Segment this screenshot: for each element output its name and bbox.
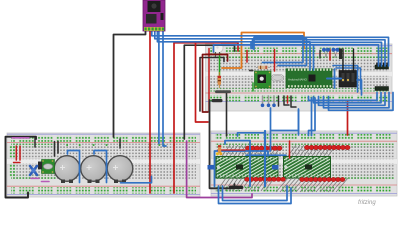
wire blue pico cross — [327, 78, 341, 80]
lead fan wires U3 bottom — [276, 178, 348, 192]
wire blue top bundle T2 — [251, 42, 382, 66]
wire red jumper BB2 b — [19, 146, 21, 160]
wire blue gap U — [271, 108, 299, 131]
wire red wrap left outer — [196, 44, 209, 123]
wire black gap vertical to BB3 — [210, 100, 235, 188]
LED row D1-D8 (above U2) — [245, 146, 282, 150]
IC module U5 (black, right of Pico) — [339, 71, 357, 88]
wire blue BB3 upper U — [225, 141, 250, 187]
wire black L BB1 c — [291, 96, 296, 107]
wire blue bottom wrap B4 — [324, 93, 390, 108]
wire gray jumper BB1 c — [273, 96, 275, 104]
piezo / blue trimmer X2 — [30, 166, 37, 175]
svg-text:fritzing: fritzing — [358, 200, 376, 206]
wire black jumper BB2 — [34, 138, 36, 148]
wire blue bottom wrap B1 — [309, 93, 378, 101]
wire blue BB3 bottom outer — [223, 186, 288, 201]
crystal Y1 (silver oval) — [272, 75, 284, 82]
wire magenta BB2 a — [31, 177, 39, 179]
wire black B left — [200, 58, 224, 112]
wire blue top bundle T4 — [254, 37, 389, 66]
svg-text:ArduinoNANO: ArduinoNANO — [288, 78, 308, 82]
wire red BB1 to BB3 right — [347, 102, 349, 135]
wire red jumper BB1 mid — [274, 50, 276, 72]
wire blue sensor INT — [157, 29, 310, 70]
wire blue top bundle T1 — [214, 45, 379, 66]
lead fan wires U3 top — [288, 145, 336, 156]
wire blue BB3 right vertical — [270, 132, 272, 152]
wire black top to BB1 — [184, 45, 234, 139]
wire blue sensor XCL down — [163, 29, 166, 146]
wire blue sensor SCL — [152, 29, 303, 63]
wire black module pins up a — [342, 49, 344, 72]
coin cell battery BT2 — [81, 156, 107, 183]
jumper dark BB1 small — [249, 70, 254, 72]
wire blue bottom wrap B2 — [314, 93, 382, 103]
wire red BB1 left vertical — [208, 49, 210, 112]
transistor Q1 (black) — [38, 162, 42, 170]
inductor L1 (black bar BB1) — [339, 49, 342, 60]
breadboard BB1 (top right) — [206, 44, 393, 111]
wire black stub BB1 a — [278, 96, 280, 106]
wire magenta BB2 b — [42, 181, 50, 183]
wire blue bottom wrap B5 — [329, 93, 394, 111]
wire red short BB2 — [14, 162, 21, 164]
wire green BB1 — [219, 56, 221, 75]
LED row D9-D16 (below U2) — [245, 177, 286, 181]
breadboard BB3 (bottom right) — [211, 131, 397, 196]
wire red jumper BB3 — [289, 141, 291, 158]
capacitor C1 (blue pair) — [322, 48, 330, 58]
wire red BB2 to BB1 — [174, 43, 238, 193]
wire red sensor VCC — [149, 29, 151, 193]
wire purple BB2 to BB3 — [187, 141, 252, 198]
wire blue pico vertical — [334, 69, 336, 88]
wire black L BB1 b — [284, 96, 289, 105]
wire blue pico vertical 4 — [313, 45, 315, 70]
wire black sensor GND — [114, 29, 146, 137]
black bar BB3 — [229, 186, 243, 189]
coin cell battery BT3 — [107, 156, 133, 183]
wire blue BB3 top short — [238, 133, 265, 136]
wire blue module left b — [336, 68, 361, 89]
wire black jumper BB1 caps — [319, 51, 321, 59]
wire black module pins up b — [353, 49, 355, 72]
wire blue sensor SDA — [155, 29, 307, 66]
wire red stub BB1 — [287, 96, 289, 103]
jumper black BB1 rail — [212, 99, 223, 102]
wire blue BB3 rect around U2 — [215, 151, 269, 187]
wire black BB1 to BB3 — [226, 92, 228, 136]
wire blue BB1 to BB3 pair b — [309, 98, 316, 136]
capacitor C2 (blue pair) — [332, 48, 340, 58]
LED yellow pair BB3 left — [216, 152, 219, 155]
wire gray jumper BB1 b — [268, 96, 270, 104]
wire black pair BB2 b — [57, 142, 59, 154]
wire red jumper BB1 caps — [329, 50, 331, 61]
pin header J2 (4 pin) — [375, 87, 389, 91]
wire blue coin hook 1 — [68, 151, 80, 183]
blue connector BB3 left — [208, 165, 215, 170]
resistor R2 (tan, BB1 horizontal) — [256, 66, 270, 69]
wire blue gap V — [298, 109, 300, 135]
wire blue module right — [357, 80, 362, 95]
wire blue coin hook 2 — [94, 151, 107, 183]
wire blue coin out — [121, 177, 152, 183]
crystal oscillator board X1 — [42, 160, 55, 174]
wire magenta rail BB2 — [12, 137, 29, 139]
wire dark red wrap BB1 left — [203, 55, 228, 113]
potentiometer board U4 (green square with knob) — [255, 71, 272, 88]
breadboard BB2 (bottom left) — [7, 133, 200, 197]
wire black ground loop left — [6, 137, 37, 198]
wire red BB3 left segment — [218, 149, 245, 151]
green columns BB2 left — [9, 145, 16, 158]
wire blue sensor XDA down — [158, 29, 160, 144]
jumper dark gray BB1 — [215, 90, 231, 93]
buzzer piezo white (top BB left) — [212, 42, 223, 58]
resistor R1 (orange, BB1) — [218, 72, 221, 88]
wire blue top bundle T3 — [253, 40, 386, 66]
wire blue BB3 seam — [246, 154, 286, 156]
wire gray jumper BB1 a — [262, 96, 264, 104]
lead fan wires U2 bottom — [217, 178, 274, 191]
wire red jumper BB1 left-mid — [246, 51, 248, 63]
blue connector BB3 mid — [272, 165, 279, 170]
LED row D25-D32 (below U3) — [300, 177, 346, 181]
pin header J1 (4 pin, top right) — [375, 63, 389, 70]
wire blue module left a — [333, 66, 358, 93]
IC chip U2 (left, bottom-right breadboard) — [216, 157, 278, 179]
microcontroller board U1 (green Pico) — [286, 69, 332, 88]
resistor R3 (BB3 left) — [218, 145, 221, 153]
sensor board MPU (purple) — [143, 0, 165, 31]
wire black pair BB2 a — [54, 142, 56, 157]
wire orange BB1 — [222, 33, 304, 69]
wire red jumper BB2 a — [15, 146, 17, 160]
IC chip U3 (right, bottom-right breadboard) — [284, 157, 331, 179]
wire black jumper BB2 c — [119, 139, 121, 148]
wire blue bottom wrap B3 — [319, 93, 386, 106]
LED row D17-D24 (above U3) — [304, 145, 350, 149]
wire blue BB3 center vertical — [264, 131, 266, 186]
wire blue BB3 bottom inner — [219, 186, 292, 204]
wire green BB1 short — [252, 83, 254, 91]
coin cell battery BT1 — [54, 156, 80, 183]
lead fan wires U2 top — [222, 145, 282, 156]
wire blue BB1 to BB3 pair a — [311, 98, 313, 136]
